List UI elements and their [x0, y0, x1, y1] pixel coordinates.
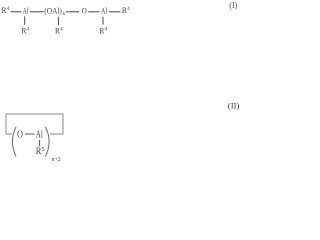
svg-text:Al: Al: [23, 5, 29, 15]
svg-text:5: 5: [42, 147, 45, 153]
atom R4 right terminal: [122, 5, 130, 15]
bond Al1 to (OAl)k: [30, 11, 44, 13]
left repeat paren of formula II: [12, 127, 16, 157]
svg-text:4: 4: [60, 26, 63, 32]
svg-text:(OAl): (OAl): [44, 6, 62, 16]
svg-text:O: O: [82, 5, 87, 15]
vertical bond Al2 to lower R4: [102, 17, 104, 25]
group (OAl)k: [44, 6, 65, 18]
svg-text:4: 4: [105, 26, 108, 32]
bond R4 to Al1: [11, 11, 22, 13]
right repeat paren of formula II: [46, 127, 50, 157]
svg-text:(I): (I): [229, 1, 237, 10]
substituent R4 below Al2: [99, 25, 107, 35]
atom R4 left terminal of formula I: [2, 5, 10, 15]
bond O to Al of formula II: [25, 133, 35, 135]
substituent R4 below Al1: [21, 25, 29, 35]
svg-text:4: 4: [127, 6, 130, 12]
vertical bond middle Al to lower R4: [57, 17, 59, 25]
svg-text:O: O: [17, 130, 23, 141]
bond O to Al2: [88, 11, 99, 13]
vertical bond Al to R5: [39, 140, 41, 147]
vertical bond Al1 to lower R4: [24, 16, 26, 24]
ring closure bond box of formula II: [6, 114, 63, 134]
svg-text:Al: Al: [101, 5, 108, 15]
svg-text:(II): (II): [228, 102, 240, 111]
bond Al2 to R4 right: [109, 11, 121, 13]
svg-text:4: 4: [27, 26, 30, 32]
substituent R4 below middle Al: [55, 25, 63, 35]
svg-text:n+2: n+2: [52, 157, 61, 163]
svg-text:k: k: [63, 11, 66, 17]
bond (OAl)k to O: [66, 11, 79, 13]
svg-text:4: 4: [7, 6, 10, 12]
substituent R5: [36, 146, 45, 157]
svg-text:Al: Al: [36, 130, 43, 141]
